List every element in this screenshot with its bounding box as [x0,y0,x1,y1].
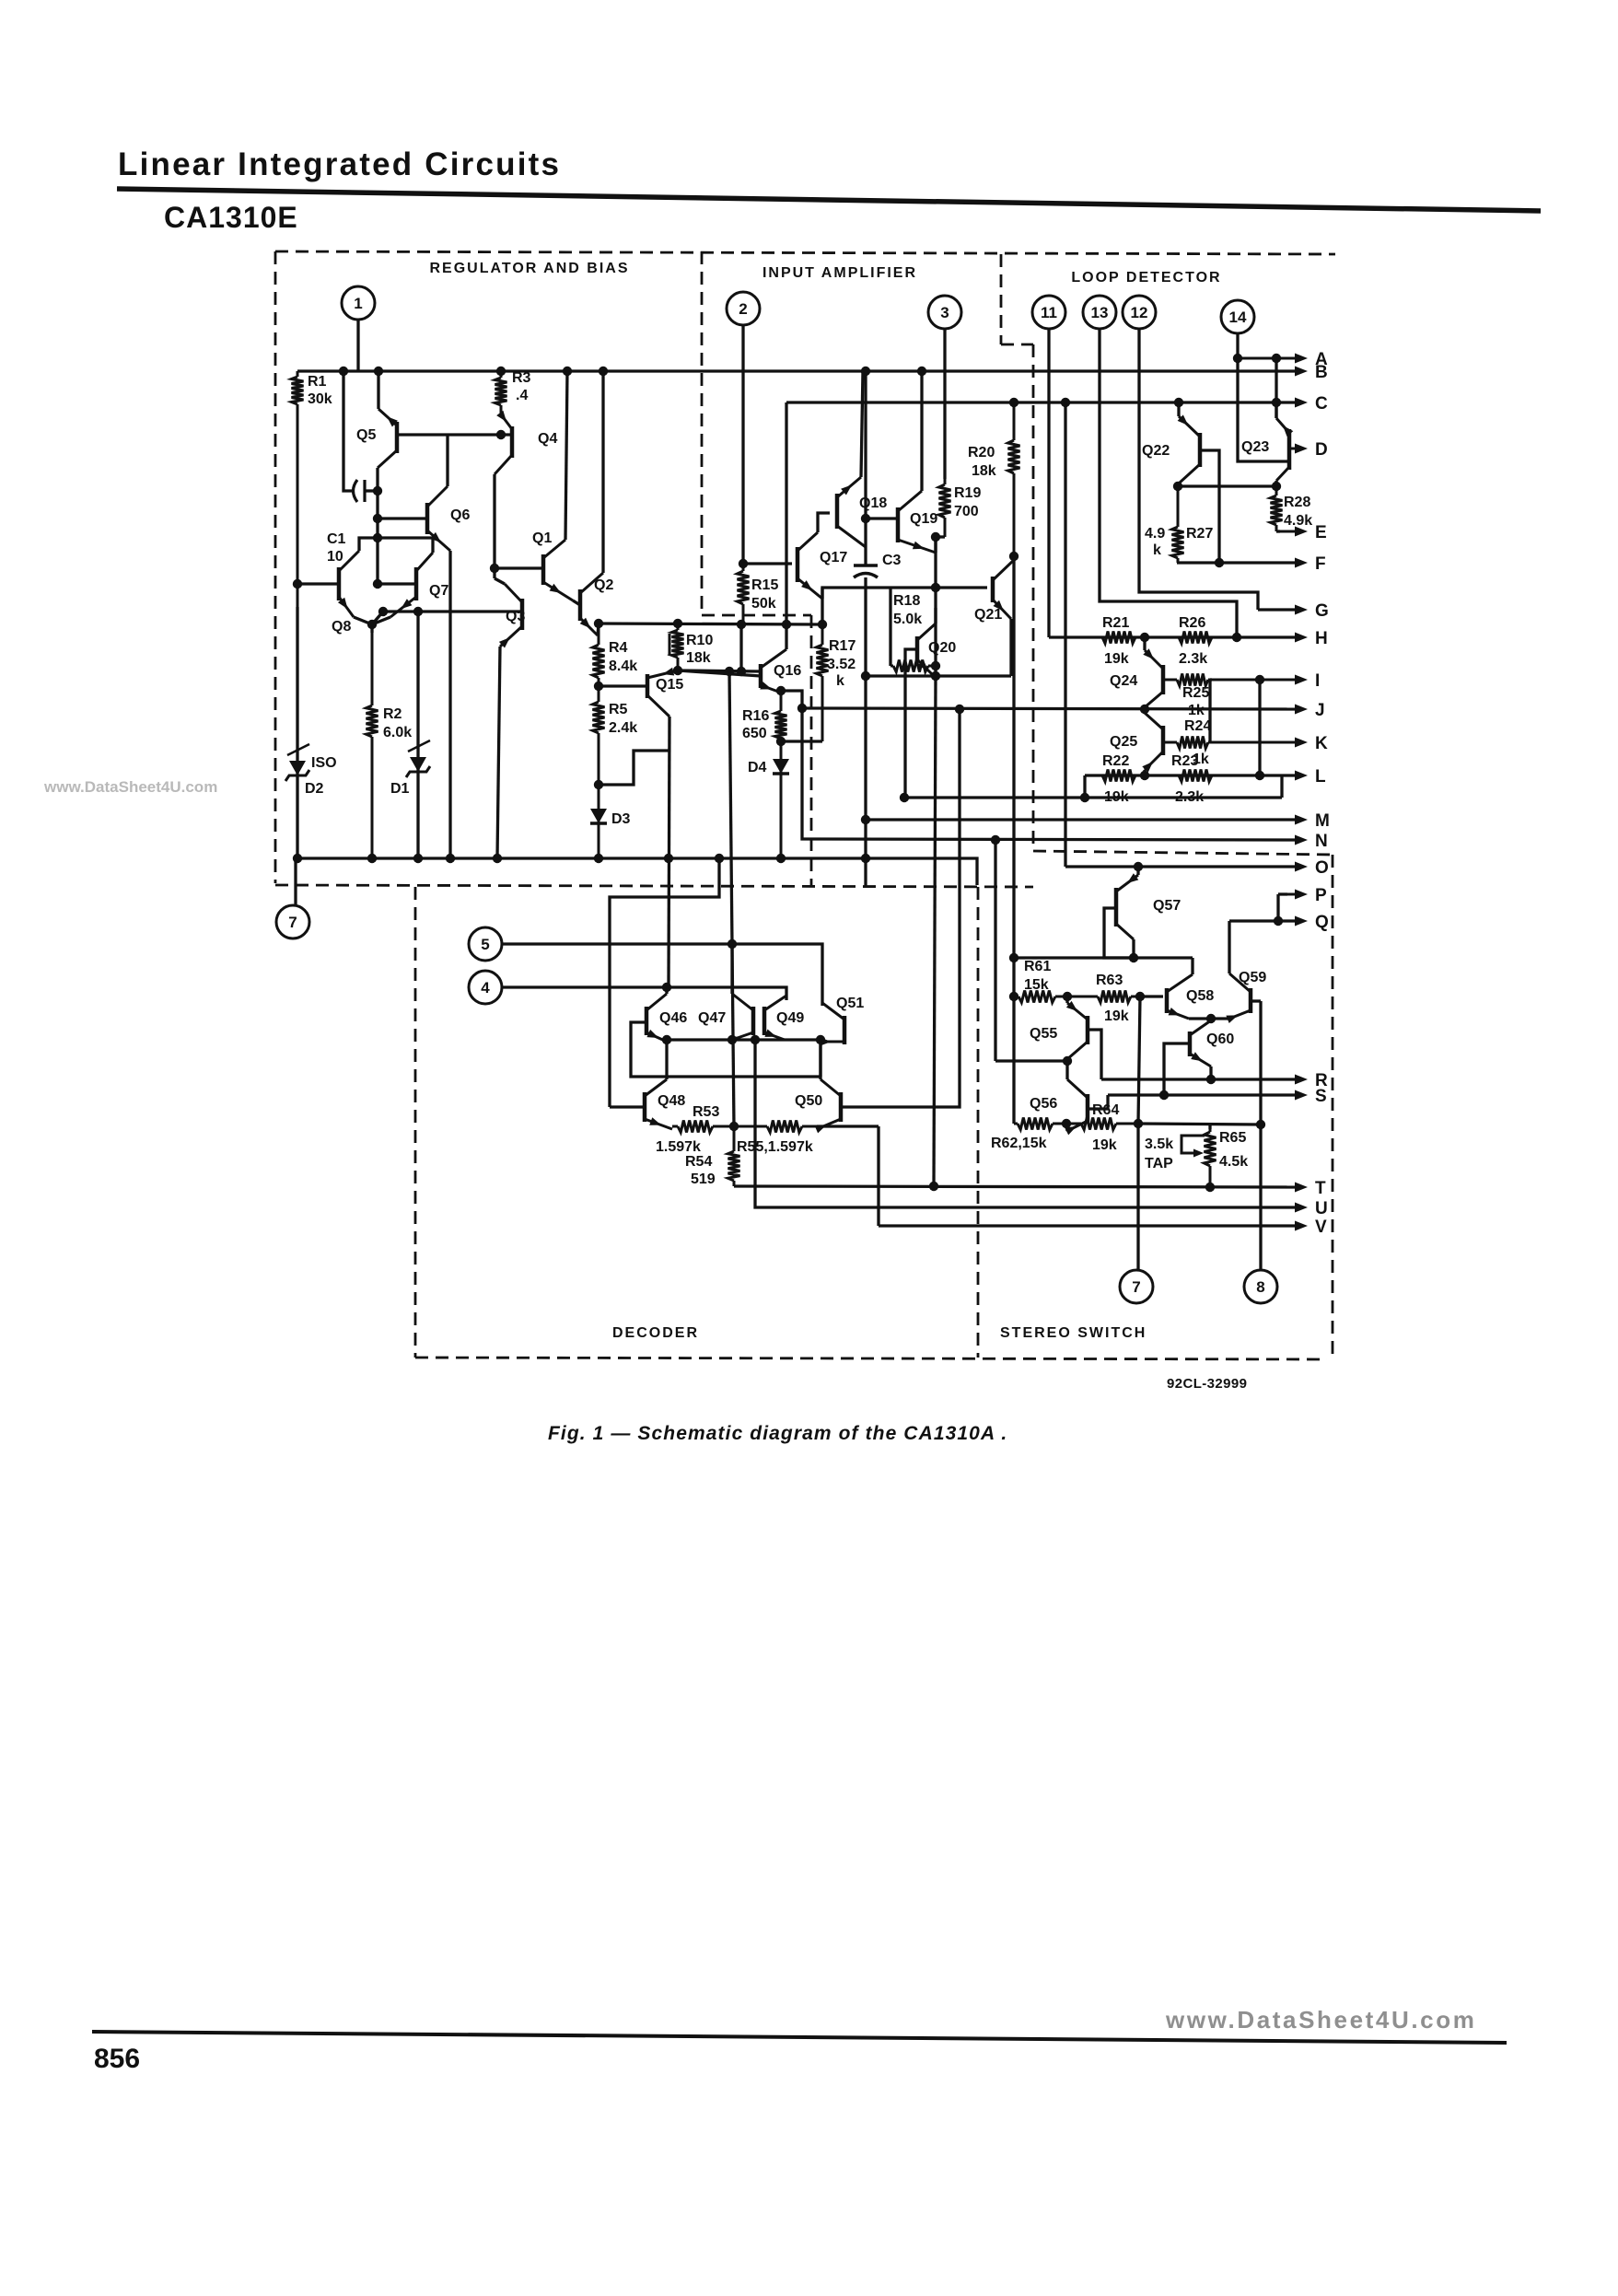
junction A/Q23 riser [1272,354,1281,363]
wire: C3 branch vertical lower [864,577,867,676]
transistor Q7 [414,567,419,600]
junction riser/Q57 row [1009,953,1019,962]
output L [1280,775,1295,777]
svg-text:3: 3 [940,304,949,321]
svg-text:R24: R24 [1184,718,1211,734]
svg-text:C3: C3 [882,553,902,568]
output S [1280,1094,1295,1097]
svg-text:D1: D1 [390,781,410,797]
svg-text:1k: 1k [1188,703,1205,718]
svg-text:Q47: Q47 [698,1010,726,1026]
svg-text:Q55: Q55 [1030,1026,1057,1042]
transistor Q6 [425,503,430,534]
wire: T line [734,1186,1295,1187]
transistor Q3 [520,599,525,630]
wire: Q19 collector to bus [920,371,923,491]
wire: Q57 base loop [1104,908,1134,958]
wire: Q5 collector down C1 node [376,468,378,584]
junction 728 rail/long riser [725,667,734,676]
junction pin4/Q46 [662,983,671,992]
wire: R28 to E [1276,530,1280,532]
output B [1280,370,1295,373]
svg-text:650: 650 [742,726,767,741]
transistor Q21 [991,577,995,602]
transistor Q47 [751,1007,756,1035]
svg-text:Q22: Q22 [1142,443,1170,459]
resistor R19 700 [944,479,947,484]
wire: S line [1108,1093,1295,1096]
dashed border: decoder left edge [414,887,417,1358]
svg-text:INPUT AMPLIFIER: INPUT AMPLIFIER [762,265,917,281]
svg-text:R17: R17 [829,638,856,654]
svg-text:7: 7 [288,914,297,931]
wire: Q18 emitter to bus [861,371,863,477]
wire: C1 branch from bus [343,371,354,491]
resistor R65 4.5k [1209,1129,1212,1132]
junction 734 row/C3 line [861,671,870,681]
transistor Q49 [762,1007,767,1035]
junction Q4 collector/Q3 collector/Q1 base [490,564,499,573]
svg-text:Q49: Q49 [776,1010,804,1026]
svg-text:4.9k: 4.9k [1284,513,1312,529]
output E [1276,530,1295,533]
pin 4 lead [502,987,786,1000]
svg-text:D4: D4 [748,760,767,775]
wire: O line [1065,865,1295,868]
junction I/riser [1255,675,1264,684]
svg-text:15k: 15k [1024,977,1049,993]
wire: Q17 emitter node [822,588,890,599]
junction C1/Q5 collector [373,486,382,495]
svg-text:R62,15k: R62,15k [991,1136,1047,1151]
svg-text:R2: R2 [383,706,402,722]
wire: C3 line to M output [864,676,867,887]
wire: U line [755,1202,1295,1207]
junction rail/Q49-Q51 [816,1035,825,1044]
svg-text:4.5k: 4.5k [1219,1154,1248,1170]
wire: Q16 collector riser to C line [785,624,787,649]
dashed border: stereo switch right edge [1332,855,1334,1358]
wire: Q1 collector to bus [565,371,567,540]
junction bus/Q5 emitter [374,367,383,376]
wire: Q46 base loop riser [819,1040,821,1077]
transistor Q60 [1188,1031,1193,1056]
pin 13 [1083,296,1116,329]
svg-text:Q56: Q56 [1030,1096,1057,1112]
svg-text:13: 13 [1091,304,1109,321]
wire: Q55 emitter to R61 node [1065,996,1068,1003]
svg-text:92CL-32999: 92CL-32999 [1167,1376,1247,1392]
wire: Q48 feed from upper left [610,858,719,1107]
output J [1280,708,1295,711]
resistor R26 2.3k [1145,636,1179,639]
svg-text:2: 2 [739,300,747,318]
wire: Q59 base leg [1251,999,1261,1002]
svg-text:D3: D3 [611,811,631,827]
wire: switch rail 1152 [995,1059,1067,1062]
wire: Q56 emitter to R62 row [1066,1124,1067,1131]
junction O/Q57 emitter [1134,862,1143,871]
svg-text:519: 519 [691,1171,716,1187]
wire: Q5 emitter to bus [377,371,379,409]
svg-text:19k: 19k [1104,651,1129,667]
resistor R4 8.4k [598,624,600,645]
wire: Q46 base loop [631,1022,821,1077]
svg-text:Q48: Q48 [658,1093,685,1109]
wire: R20 node down to switch [1012,556,1015,1124]
wire: Q55 base to R line [1088,1030,1101,1079]
junction row/Q59 leg [1256,1120,1265,1129]
junction row/pin7 riser [1134,1119,1143,1128]
junction R62/Q56 emitter [1062,1119,1071,1128]
svg-text:N: N [1315,832,1328,851]
wire: Q17 emitter to R17 [821,588,823,624]
wire: Q56 collector to rail [1065,1061,1068,1079]
junction L/riser [1255,771,1264,780]
junction gnd/Q6 emitter [446,854,455,863]
wire: Q1 base line [495,566,543,569]
resistor R53 1.597k [672,1125,678,1128]
junction R5/D3 [594,780,603,789]
diode D4 [780,741,783,858]
svg-text:R64: R64 [1092,1102,1119,1118]
svg-text:R15: R15 [751,577,778,593]
dashed border: regulator right jog [702,614,811,617]
svg-text:G: G [1315,601,1329,621]
resistor R18 5.0k [890,665,893,668]
wire: F line [1177,561,1295,564]
wire: Q17 collector to Q18 base [818,513,830,532]
resistor R15 50k [742,564,745,571]
junction emitter rail [1206,1014,1216,1023]
wire: Q23 collector riser to A [1275,358,1277,418]
svg-text:H: H [1315,629,1328,648]
svg-text:C1: C1 [327,531,346,547]
wire: C line left riser [785,402,787,624]
wire: R19 bottom joins Q19 emitter [936,535,945,538]
wire: Q50 base line [841,709,960,1107]
svg-text:V: V [1315,1218,1327,1237]
svg-text:19k: 19k [1092,1137,1117,1153]
wire: Q23 emitter riser to C [1275,402,1277,418]
svg-text:Q59: Q59 [1239,970,1266,985]
svg-text:Q5: Q5 [356,427,376,443]
wire: L return right leg [1280,775,1283,798]
wire: R22 left leg [1083,775,1086,798]
junction gnd/Q3 emitter [493,854,502,863]
svg-text:7: 7 [1132,1278,1140,1296]
pin 1 [342,286,375,320]
transistor Q46 [645,1007,649,1035]
svg-text:R53: R53 [693,1104,719,1120]
pin 7 left lead [294,856,297,905]
resistor R24 1k [1163,741,1177,744]
junction R4/R5/Q15 base [594,682,603,691]
footer rule [92,2032,1507,2043]
svg-text:R16: R16 [742,708,769,724]
svg-text:Q24: Q24 [1110,673,1137,689]
junction bus/Q1 collector [563,367,572,376]
transistor Q22 [1198,433,1203,467]
junction 528/R27 [1173,482,1182,491]
svg-text:R22: R22 [1102,753,1129,769]
junction emitters node [367,620,377,629]
wire: D1 branch [416,612,419,858]
svg-text:LOOP DETECTOR: LOOP DETECTOR [1071,270,1221,286]
wire: Q20 base down to L-return [905,649,917,798]
svg-text:D: D [1315,440,1328,460]
wire: Q19 emitter to R19 node [934,537,937,553]
svg-text:Q57: Q57 [1153,898,1181,914]
junction 866/R22 leg [1080,793,1089,802]
svg-text:Q21: Q21 [974,607,1002,623]
svg-text:R27: R27 [1186,526,1213,542]
output H [1280,636,1295,639]
junction T/R65 [1205,1183,1215,1192]
junction gnd/R1 [293,854,302,863]
junction ground/Q15 collector crossing [664,854,673,863]
transistor Q48 [643,1092,647,1122]
resistor R28 4.9k [1275,486,1278,495]
svg-text:3.5k: 3.5k [1145,1136,1173,1152]
wire: Q20 collector join [934,608,937,624]
junction Q5 collector/Q7-Q8 collectors [373,533,382,542]
svg-text:Q16: Q16 [774,663,801,679]
svg-text:R25: R25 [1182,685,1209,701]
wire: R line [1101,1078,1295,1080]
junction J/Q50 base riser [955,705,964,714]
pin 11 lead [1047,329,1050,637]
resistor R63 19k [1067,996,1098,998]
wire: R17 bottom jog to R16 bottom [781,740,822,742]
wire: I-L riser [1258,680,1261,775]
svg-text:Q51: Q51 [836,996,864,1011]
junction rail/Q46 [662,1035,671,1044]
wire: Q60 base stub [1164,1043,1190,1095]
wire: M line [866,818,1295,821]
svg-text:14: 14 [1229,309,1247,326]
resistor R3 .4 [500,371,503,378]
resistor R1 30k [297,371,299,377]
svg-text:12: 12 [1131,304,1148,321]
output D [1287,448,1295,450]
svg-text:Q8: Q8 [332,619,351,635]
zener diode D1 [417,645,420,858]
pin 3 [928,296,961,329]
svg-text:Q23: Q23 [1241,439,1269,455]
transistor Q51 [843,1016,847,1044]
dashed border: regulator/input-amp/loop-detector top [275,251,1335,254]
pin 4 [469,971,502,1004]
wire: Q7 base [378,582,416,585]
svg-text:2.4k: 2.4k [609,720,637,736]
pin 7 left [276,905,309,938]
wire: Q57 emitter to O [1136,867,1139,875]
wire: Q8 collector up to C1 node [359,538,378,551]
svg-text:R21: R21 [1102,615,1129,631]
wire: Q15 base from R4-R5 node [599,684,647,687]
transistor Q1 [541,554,546,585]
wire: Q57 row 1040 [1014,956,1193,959]
svg-text:R10: R10 [686,633,713,648]
wire: J line [802,708,1295,709]
resistor R64 19k [1066,1123,1081,1125]
wire: Q50 emitter node to V riser [817,1125,879,1127]
wire: 528 row [1178,484,1276,487]
junction R10 bottom/Q15 emitter [673,666,682,675]
wire: Q47 collector riser [730,944,733,994]
svg-text:Fig. 1 — Schematic diagram of: Fig. 1 — Schematic diagram of the CA1310… [548,1423,1007,1444]
junction Q/P jog [1274,916,1283,926]
svg-text:R18: R18 [893,593,920,609]
junction base rail/R3 line [496,430,506,439]
wire: C3 branch vertical upper [864,371,867,565]
junction gnd/C3 branch [861,854,870,863]
junction C3 line/Q19 base [861,514,870,523]
junction H/pin13 riser [1232,633,1241,642]
svg-text:R63: R63 [1096,973,1123,988]
resistor R10 18k [677,624,680,630]
junction C/R20 [1009,398,1019,407]
wire: Q24 emitter to H [1143,637,1146,650]
junction R/Q60 emitter [1206,1075,1216,1084]
resistor R16 650 [780,691,783,711]
transistor Q50 [839,1092,844,1122]
wire: Q48 collector riser [665,1040,668,1079]
svg-text:www.DataSheet4U.com: www.DataSheet4U.com [43,778,217,796]
svg-text:A: A [1315,350,1328,369]
resistor R55 1.597k [734,1125,767,1128]
svg-text:T: T [1315,1179,1326,1198]
wire: Q16 base row [678,670,761,676]
junction riser/J line [797,704,807,713]
wire: R25-R24 right link [1208,680,1211,742]
resistor R61 15k [1014,996,1019,998]
svg-text:Q4: Q4 [538,431,557,447]
transistor Q55 [1086,1016,1090,1044]
transistor Q20 [915,636,920,662]
svg-text:4: 4 [481,979,490,996]
dashed border: decoder/stereo divider [977,887,980,1358]
svg-text:3.52: 3.52 [827,657,856,672]
junction 677/R17 [818,620,827,629]
svg-text:REGULATOR AND BIAS: REGULATOR AND BIAS [429,261,629,276]
output U [1280,1206,1295,1209]
capacitor C1 10 [354,480,358,502]
svg-text:Q6: Q6 [450,507,470,523]
wire: Q3 collector to Q1 base node [495,578,505,584]
svg-text:Q50: Q50 [795,1093,822,1109]
transistor Q59 [1249,988,1253,1013]
svg-text:www.DataSheet4U.com: www.DataSheet4U.com [1165,2006,1476,2034]
svg-text:5: 5 [481,936,489,953]
wire: Q3 base line [383,610,522,612]
junction bus/C3 branch [861,367,870,376]
output O [1280,866,1295,868]
svg-text:R61: R61 [1024,959,1051,974]
svg-text:P: P [1315,886,1327,905]
svg-text:Q17: Q17 [820,550,847,565]
wire: Q15 emitter rail 728 [678,670,761,671]
dashed border: regulator left edge [274,251,277,883]
svg-text:1.597k: 1.597k [656,1139,701,1155]
junction H/Q24 emitter [1140,633,1149,642]
svg-text:R3: R3 [512,370,531,386]
transistor Q8 [337,567,342,600]
svg-text:Q18: Q18 [859,495,887,511]
wire: R63 to Q58 base [1140,995,1163,997]
svg-text:C: C [1315,394,1328,414]
wire: Q24 collector to J [1143,707,1146,709]
resistor R2 6.0k [371,633,374,705]
transistor Q25 [1161,726,1166,755]
junction D1 top [413,607,423,616]
wire: ground rail [297,858,977,885]
wire: Q1 emitter to Q2 base [573,600,580,605]
resistor R54 519 [733,1126,736,1151]
svg-text:K: K [1315,734,1328,753]
resistor R22 19k [1085,775,1102,777]
pin 12 [1123,296,1156,329]
svg-text:R23: R23 [1171,753,1198,769]
wire: R65 top leg [1208,1124,1211,1129]
junction bus/Q19 collector [917,367,926,376]
junction bus/R3 [496,367,506,376]
wire: Q2 collector to bus [601,371,604,573]
dashed border: input-amp right edge upper [1000,254,1003,344]
wire: row to R65 and Q59 leg [1138,1124,1261,1125]
wire: row to Q58 collector [1191,958,1193,974]
wire: Q6 collector up [446,435,448,486]
svg-text:R4: R4 [609,640,628,656]
resistor R17 3.52k [821,624,824,645]
wire: L row [1085,774,1295,776]
pin 5 lead [502,944,822,1006]
junction net/Q21 base row [931,583,940,592]
junction L/Q25 emitter [1140,771,1149,780]
svg-text:1: 1 [354,295,362,312]
svg-text:700: 700 [954,504,979,519]
junction 528/R28-Q23 [1272,482,1281,491]
junction R19/Q19 emitter [931,532,940,542]
wire: Q22 emitter from C [1177,402,1180,416]
dashed border: regulator+input bottom [275,885,1033,887]
dashed border: input-amp/loop jog [1001,344,1033,346]
transistor Q17 [796,547,800,582]
resistor R25 1k [1163,679,1177,682]
wire: Q7-Q8 emitter join [354,617,390,624]
wire: Q15 collector down to decoder pin4 line [669,717,669,987]
wire: Q55 collector to rail [1065,1059,1068,1061]
junction 866/Q20 base leg [900,793,909,802]
wire: emitter rail Q58-Q59 [1189,1017,1229,1020]
pin 14 [1221,300,1254,333]
junction S/Q60 base [1159,1090,1169,1100]
resistor R23 2.3k [1145,775,1179,777]
wire: emitter node to Q3 base [372,612,383,624]
wire: emitters to R2 [370,624,373,633]
junction 677/R15 [737,620,746,629]
junction R1/Q8 base [293,579,302,589]
wire: Q23 collector to 528 row [1275,481,1277,486]
wire: P to Q jog [1276,894,1279,921]
output V [1280,1225,1295,1228]
svg-text:F: F [1315,554,1326,574]
svg-text:S: S [1315,1087,1327,1106]
output K [1210,741,1295,744]
junction N/switch riser [991,835,1000,845]
junction bus/Q2 collector [599,367,608,376]
